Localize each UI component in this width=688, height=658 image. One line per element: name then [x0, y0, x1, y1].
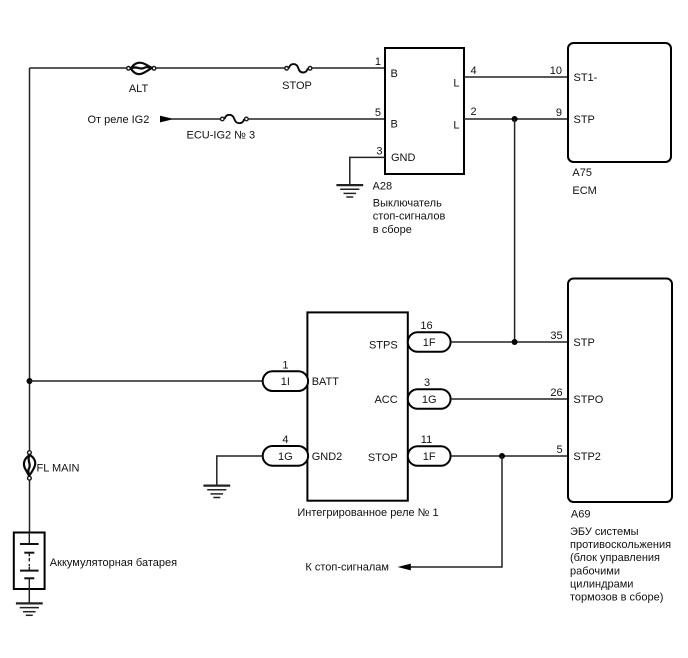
pin 4 label [471, 65, 477, 77]
pin 4 label [282, 434, 288, 446]
svg-text:ЭБУ системы: ЭБУ системы [570, 526, 639, 538]
pin 5 name STP2 [573, 451, 601, 463]
pin 4 name L [453, 78, 459, 90]
svg-text:STP: STP [574, 114, 595, 126]
svg-text:3: 3 [376, 145, 382, 157]
svg-text:тормозов в сборе): тормозов в сборе) [570, 592, 663, 604]
wire A28 pin 3 to ground [350, 157, 385, 185]
label К стоп-сигналам [305, 561, 389, 573]
svg-text:1F: 1F [423, 337, 436, 349]
svg-text:L: L [453, 78, 459, 90]
wire from FL MAIN to battery [29, 480, 31, 532]
svg-text:9: 9 [556, 107, 562, 119]
wire STOP to A69 pin 5 [451, 455, 568, 457]
caption Интегрированное реле № 1 [297, 507, 438, 519]
fusible link ALT [127, 63, 156, 74]
fuse STOP [285, 64, 312, 72]
wire GND2 to ground [217, 456, 263, 486]
arrow to stop lamps [398, 564, 411, 571]
connector pill 1F (STPS) [408, 332, 451, 352]
pin 26 label [550, 387, 562, 399]
pin 35 name STP [573, 337, 594, 349]
wire A28 pin 4 to ECM pin 10 [464, 76, 568, 78]
svg-text:1: 1 [375, 56, 381, 68]
pin 5 name B [391, 119, 398, 131]
pin 3 name GND [391, 152, 416, 164]
svg-text:в сборе: в сборе [373, 224, 412, 236]
svg-text:16: 16 [420, 320, 432, 332]
wire junction down to STP node [514, 119, 516, 342]
label ALT [129, 83, 149, 95]
svg-text:STOP: STOP [282, 80, 312, 92]
pin 3 label [376, 145, 382, 157]
wire A28 pin 2 to ECM pin 9 [464, 118, 568, 120]
battery Аккумуляторная батарея [14, 533, 45, 590]
svg-text:STOP: STOP [368, 452, 398, 464]
svg-text:BATT: BATT [312, 376, 340, 388]
wire battery to ground [28, 589, 30, 603]
svg-text:4: 4 [282, 434, 288, 446]
wire row 2 right segment to A28 pin 5 [249, 118, 386, 120]
ECU A75 ECM box [568, 43, 671, 162]
connector pill 1G (ACC) [408, 389, 451, 409]
pin 5 label [556, 444, 562, 456]
svg-text:Аккумуляторная батарея: Аккумуляторная батарея [50, 557, 177, 569]
pin name ACC [374, 394, 397, 406]
svg-text:L: L [453, 120, 459, 132]
pin 16 label [420, 320, 432, 332]
svg-text:ECU-IG2 № 3: ECU-IG2 № 3 [187, 130, 256, 142]
svg-text:1: 1 [282, 359, 288, 371]
ground A28 [336, 185, 363, 197]
svg-text:A28: A28 [373, 181, 393, 193]
svg-text:STP: STP [573, 337, 594, 349]
label FL MAIN [37, 463, 80, 475]
pin name STOP [368, 452, 398, 464]
svg-text:5: 5 [556, 444, 562, 456]
svg-text:рабочими: рабочими [570, 566, 620, 578]
fuse ECU-IG2 № 3 [221, 115, 249, 123]
wire row 1 middle segment [156, 67, 284, 69]
wire BATT branch [30, 380, 263, 382]
label A28 [373, 181, 393, 193]
wire left vertical main feed [29, 68, 31, 450]
svg-text:35: 35 [550, 330, 562, 342]
svg-text:1I: 1I [281, 376, 290, 388]
wire ACC to A69 pin 26 [451, 398, 568, 400]
pin 9 name STP [574, 114, 595, 126]
label ECU-IG2 № 3 [187, 130, 256, 142]
svg-text:3: 3 [424, 377, 430, 389]
svg-text:ST1-: ST1- [574, 72, 598, 84]
svg-text:STPS: STPS [369, 340, 398, 352]
wire row 2 left segment [171, 118, 220, 120]
pin 26 name STPO [573, 394, 603, 406]
pin 35 label [550, 330, 562, 342]
svg-text:стоп-сигналов: стоп-сигналов [373, 211, 446, 223]
junction on STP(35) wire [512, 339, 518, 345]
pin 3 label [424, 377, 430, 389]
svg-text:ECM: ECM [572, 185, 596, 197]
pin 9 label [556, 107, 562, 119]
wire junction down to stop lamps [409, 456, 503, 567]
relay block Интегрированное реле № 1 [307, 312, 407, 500]
svg-text:STP2: STP2 [573, 451, 601, 463]
ECU A69 box [568, 279, 672, 503]
svg-text:противоскольжения: противоскольжения [570, 539, 671, 551]
caption ЭБУ системы противоскольжения [570, 526, 671, 604]
svg-text:A75: A75 [572, 167, 592, 179]
svg-text:(блок управления: (блок управления [570, 552, 660, 564]
pin name GND2 [312, 451, 343, 463]
switch A28 box [385, 48, 464, 174]
svg-text:2: 2 [471, 106, 477, 118]
pin 10 label [550, 65, 562, 77]
pin 11 label [421, 434, 432, 446]
connector pill 1I (BATT) [263, 371, 308, 391]
pin 1 label [375, 56, 381, 68]
connector pill 1F (STOP) [408, 446, 451, 466]
svg-text:4: 4 [471, 65, 477, 77]
arrow from relay IG2 [161, 116, 172, 121]
pin 5 label [375, 107, 381, 119]
label ECM [572, 185, 596, 197]
svg-text:5: 5 [375, 107, 381, 119]
pin 2 label [471, 106, 477, 118]
pin 2 name L [453, 120, 459, 132]
ground below battery [16, 603, 43, 615]
ground relay GND2 [203, 486, 230, 498]
svg-text:B: B [391, 119, 398, 131]
pin name BATT [312, 376, 340, 388]
svg-text:цилиндрами: цилиндрами [570, 579, 633, 591]
pin 1 label [282, 359, 288, 371]
svg-text:Интегрированное реле № 1: Интегрированное реле № 1 [297, 507, 438, 519]
wire row 1 right segment to A28 pin 1 [312, 67, 385, 69]
svg-text:ALT: ALT [129, 83, 149, 95]
caption Выключатель стоп-сигналов в сборе [373, 198, 446, 236]
pin 1 name B [391, 68, 398, 80]
wire top feed row 1 left segment [30, 67, 127, 69]
svg-text:GND2: GND2 [312, 451, 343, 463]
pin name STPS [369, 340, 398, 352]
label От реле IG2 [88, 114, 150, 126]
svg-text:GND: GND [391, 152, 416, 164]
svg-text:1G: 1G [278, 451, 293, 463]
svg-text:ACC: ACC [374, 394, 397, 406]
junction on STP2 wire [499, 453, 505, 459]
svg-text:1G: 1G [422, 394, 437, 406]
svg-text:A69: A69 [571, 509, 591, 521]
svg-text:FL MAIN: FL MAIN [37, 463, 80, 475]
junction at battery feed / BATT branch [27, 378, 33, 384]
svg-text:26: 26 [550, 387, 562, 399]
svg-text:STPO: STPO [573, 394, 603, 406]
connector pill 1G (GND2) [263, 446, 308, 466]
label STOP [282, 80, 312, 92]
svg-text:1F: 1F [423, 451, 436, 463]
wire STPS to A69 pin 35 [451, 341, 568, 343]
label Аккумуляторная батарея [50, 557, 177, 569]
junction on STP wire [512, 116, 518, 122]
svg-text:B: B [391, 68, 398, 80]
svg-text:К стоп-сигналам: К стоп-сигналам [305, 561, 389, 573]
svg-text:От реле IG2: От реле IG2 [88, 114, 150, 126]
label A75 [572, 167, 592, 179]
svg-text:Выключатель: Выключатель [373, 198, 442, 210]
pin 10 name ST1- [574, 72, 598, 84]
label A69 [571, 509, 591, 521]
fusible link FL MAIN [24, 451, 35, 480]
svg-text:10: 10 [550, 65, 562, 77]
svg-text:11: 11 [421, 434, 432, 446]
